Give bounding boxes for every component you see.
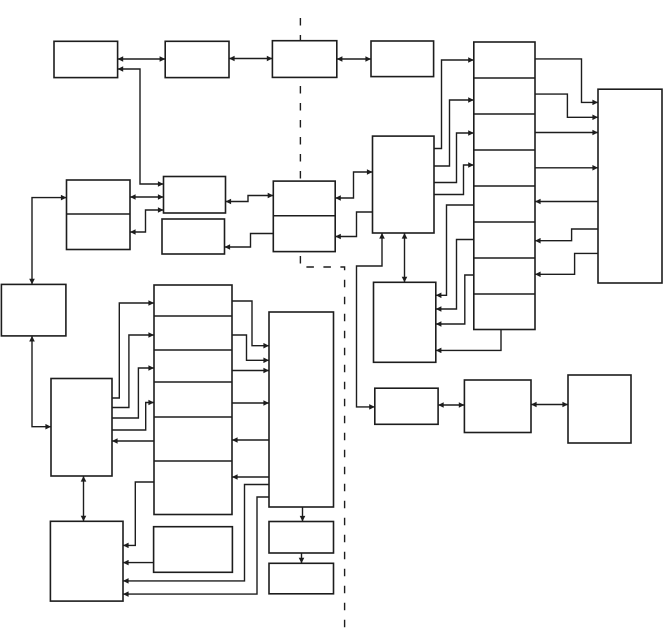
block E (mid double cell): [273, 181, 335, 252]
block Q (bottom left): [50, 521, 123, 601]
wire P-S2 cell4: [112, 403, 154, 431]
wire S2 cell4-T: [232, 402, 269, 404]
wire S1 cell3-R1: [535, 132, 598, 134]
block D (top row 4): [371, 41, 434, 77]
wire M-S1 cell2: [434, 100, 474, 166]
wire B-C (double arrow): [229, 58, 272, 60]
wire M-B1 (double arrow, long): [357, 233, 383, 407]
wire B1-B2 (double arrow): [438, 404, 464, 406]
wire M-S1 cell4: [434, 165, 474, 195]
wire M-M2 (double arrow): [404, 233, 406, 282]
wire S1 cell2-R1: [535, 94, 598, 117]
wire T-Q lower: [123, 497, 269, 594]
block C (top row 3): [272, 41, 336, 78]
block B3 (bottom right row 3): [568, 375, 631, 443]
wire S1 cell5-M2: [436, 205, 474, 295]
block A (top row 1): [54, 41, 118, 77]
wire A-B (double arrow): [118, 58, 166, 60]
wire F-G (double arrow): [130, 196, 164, 198]
wire A-G (double arrow, stepped): [118, 69, 164, 184]
wire S2 cell3-T: [232, 370, 269, 372]
wire R1-S1 cell7: [535, 253, 598, 274]
wire P-S2 cell2: [112, 335, 154, 408]
block M (center tall): [373, 136, 435, 233]
wire R1-S1 cell6: [535, 229, 598, 241]
block G (mid row): [164, 177, 226, 214]
wire F-L (double arrow): [32, 198, 67, 285]
wire R1-S1 cell5: [535, 201, 598, 203]
block P (lower left): [51, 379, 112, 477]
wire S1 cell4-R1: [535, 167, 598, 169]
block L (left edge): [1, 284, 66, 336]
wire F-G lower (double arrow, stepped): [130, 210, 164, 232]
block T (lower center tall): [269, 312, 334, 507]
wire M-S1 cell1: [434, 60, 474, 149]
wire S1 cell8-M2: [436, 330, 501, 351]
wire C-D (double arrow): [337, 58, 371, 60]
wire S2 cell2-T: [232, 335, 269, 360]
block V2 (bottom small 2): [269, 563, 334, 594]
wire L-P (double arrow): [32, 336, 51, 427]
wire E-M (double arrow, stepped): [335, 172, 372, 198]
block R (bottom center): [154, 527, 233, 573]
wire R-Q: [123, 562, 154, 564]
block M2 (below M): [374, 282, 436, 362]
wire S1 cell6-M2: [436, 240, 474, 310]
wire M-E (arrow into E): [335, 212, 372, 237]
wire S1 cell1-R1: [535, 59, 598, 103]
block V1 (bottom small 1): [269, 522, 334, 554]
block B2 (bottom right row 2): [464, 380, 531, 433]
block B (top row 2): [165, 41, 229, 77]
wire S2 cell1-T: [232, 301, 269, 346]
wire S1 cell7-M2: [436, 275, 474, 324]
wire V1-V2: [301, 553, 303, 563]
wire B2-B3 (double arrow): [531, 404, 568, 406]
wire P-Q (double arrow): [83, 476, 85, 521]
wire T-S2 cell5: [232, 439, 269, 441]
wire T-S2 cell6: [232, 476, 269, 478]
block B1 (bottom right row 1): [375, 388, 438, 424]
wire E-H (arrow into H): [225, 234, 274, 248]
wire T-V1: [302, 507, 304, 522]
block S1 (right register stack, 8 cells): [474, 42, 535, 330]
wire P-S2 cell1: [112, 303, 154, 398]
wire T-Q upper: [123, 485, 269, 581]
block R1 (far right tall): [598, 89, 662, 283]
wire P-S2 cell3: [112, 368, 154, 418]
wire S2 cell6-Q: [123, 482, 154, 545]
wire S2 cell5-P: [112, 440, 154, 442]
block H (below G): [162, 219, 225, 254]
block S2 (lower-left register stack, 6 cells): [154, 285, 232, 515]
dashed boundary line: [300, 18, 344, 628]
block F (mid-left double cell): [67, 180, 131, 250]
wire G-E (double arrow, stepped): [226, 196, 274, 202]
wire M-S1 cell3: [434, 133, 474, 183]
